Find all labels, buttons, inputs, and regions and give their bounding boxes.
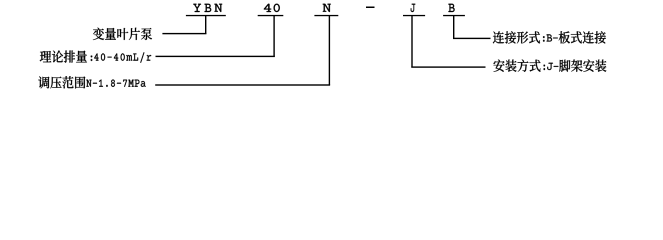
leader vertical from B [453,15,454,39]
value N-1.8-7MPa [86,80,145,87]
label: connection type [493,31,540,43]
label: pressure regulating range [38,76,85,88]
colon in connection label [543,36,544,41]
model code letter B (pump series) [205,4,212,12]
label: theoretical displacement [40,51,87,63]
value 40-40mL/r [94,52,151,62]
leader horizontal to displacement label [156,56,275,57]
model code letter Y [193,4,201,12]
leader horizontal to pump-name label [162,33,206,34]
underline under 40 [258,15,284,16]
leader vertical from J [411,15,412,67]
underline under B [443,15,465,16]
leader horizontal to connection label [453,38,491,39]
mounting code J [411,4,416,12]
label: variable vane pump [93,28,152,40]
leader vertical from 40 [273,15,274,57]
underline under YBN [186,15,226,16]
label: foot bracket mounting [559,60,606,72]
pressure code N [323,4,331,12]
underline under N [314,15,338,16]
separator dash [366,7,375,9]
leader vertical from YBN [205,15,206,34]
colon in mounting label [544,65,545,70]
underline under J [403,15,425,16]
displacement code 4 [264,4,272,12]
displacement code 0 [274,4,280,12]
label: mounting type [494,60,541,72]
value J-foot bracket code [547,63,558,70]
label: plate type connection [559,31,606,43]
leader vertical from N [329,15,330,85]
leader horizontal to mounting label [411,66,485,67]
colon after displacement label [91,56,92,61]
model code letter N [214,4,222,12]
connection code B [448,4,454,12]
leader horizontal to pressure-range label [155,84,330,85]
value B-plate connection code [547,34,558,41]
